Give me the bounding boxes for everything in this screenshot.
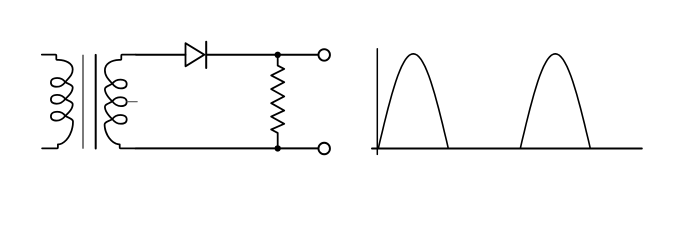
junction dot top xyxy=(275,52,281,58)
wire bottom rail xyxy=(136,147,318,149)
wire diode cathode to top terminal xyxy=(206,54,317,56)
transformer core line left xyxy=(82,55,84,148)
half-wave rectified sine hump 1 xyxy=(378,54,448,149)
secondary center tap stub xyxy=(127,101,137,103)
junction dot bottom xyxy=(275,145,281,151)
diode triangle xyxy=(186,43,205,66)
half-wave rectified sine hump 2 xyxy=(520,54,590,149)
wire secondary top lead to diode anode xyxy=(136,54,186,56)
waveform vertical axis xyxy=(376,49,378,155)
diode cathode bar xyxy=(205,42,207,68)
transformer secondary winding xyxy=(105,55,136,149)
transformer core line right xyxy=(95,55,97,149)
output terminal top xyxy=(318,49,330,61)
output terminal bottom xyxy=(318,143,330,155)
resistor (load) xyxy=(271,58,284,145)
waveform horizontal axis xyxy=(372,148,642,150)
transformer primary winding xyxy=(42,55,73,149)
